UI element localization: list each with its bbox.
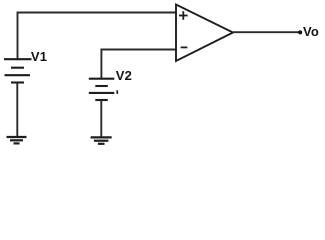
battery V2: [89, 79, 115, 100]
ground (V1): [7, 137, 27, 143]
svg-text:V2: V2: [116, 68, 132, 83]
ground (V2): [91, 137, 112, 143]
plus input marker: [179, 11, 188, 20]
minus input marker: [181, 46, 188, 48]
node Vo dot: [298, 30, 302, 34]
wire V2 bottom to ground: [100, 100, 102, 137]
battery V1: [4, 59, 32, 82]
op-amp U1 triangle: [176, 5, 233, 62]
output wire: [233, 31, 299, 33]
svg-text:Vo: Vo: [303, 24, 319, 39]
polarity tick V2: [116, 90, 118, 94]
svg-text:V1: V1: [31, 49, 47, 64]
wire V1 bottom to ground: [16, 83, 18, 138]
wire V2 top to op-amp minus input: [101, 50, 176, 79]
wire V1 top to op-amp plus input: [18, 13, 177, 60]
